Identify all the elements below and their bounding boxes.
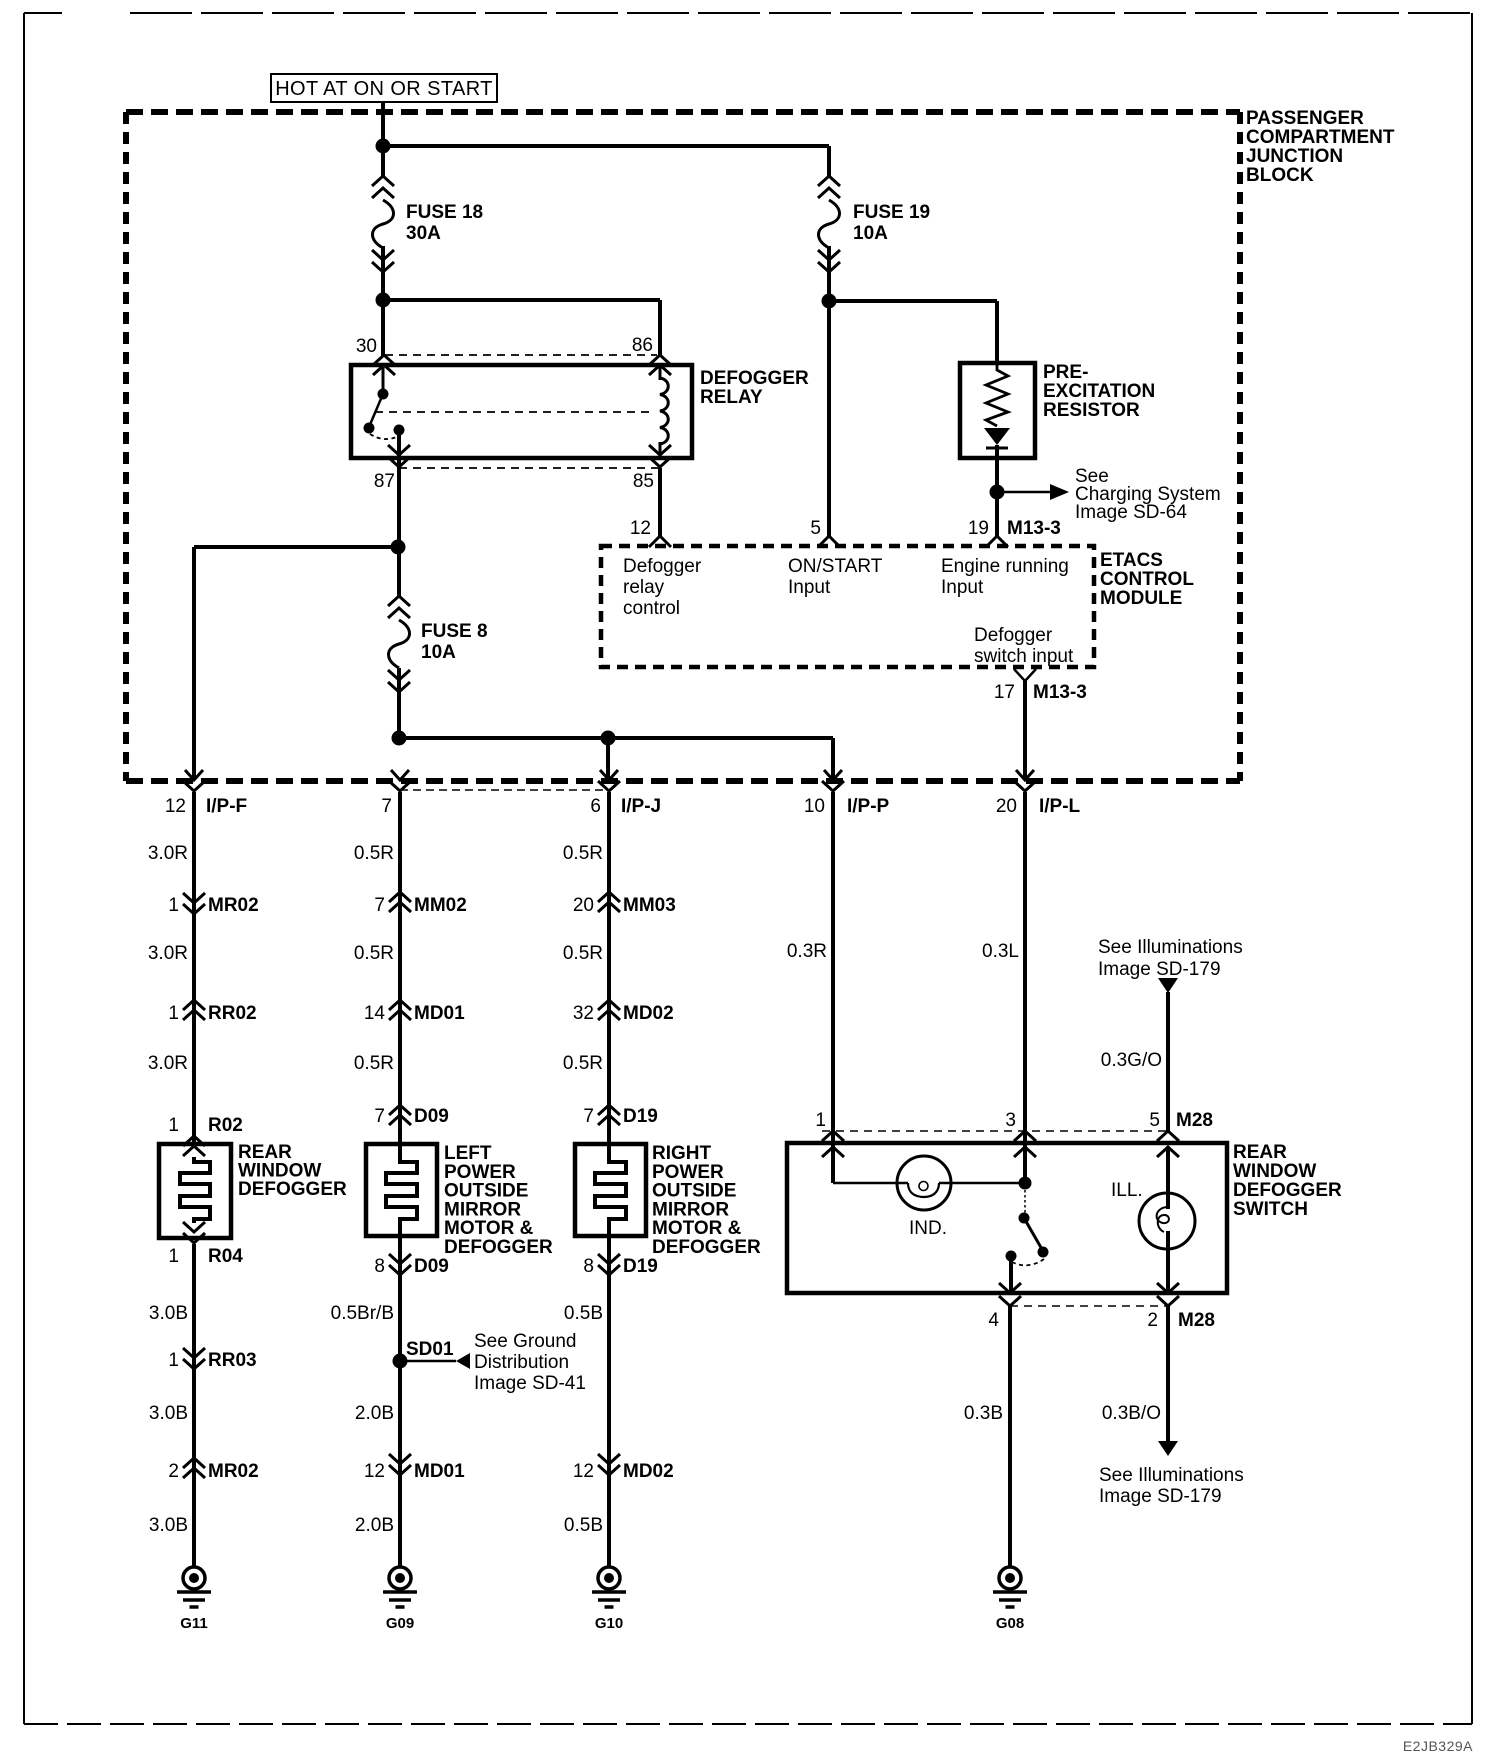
svg-text:Defogger: Defogger (623, 556, 702, 577)
svg-text:3.0B: 3.0B (149, 1403, 188, 1424)
svg-text:HOT AT ON OR START: HOT AT ON OR START (275, 78, 493, 100)
svg-text:G11: G11 (180, 1615, 208, 1632)
svg-text:MODULE: MODULE (1100, 588, 1182, 609)
svg-text:0.3G/O: 0.3G/O (1101, 1050, 1162, 1071)
svg-text:R04: R04 (208, 1246, 243, 1267)
svg-text:G09: G09 (386, 1615, 414, 1632)
svg-text:relay: relay (623, 577, 665, 598)
svg-text:20: 20 (573, 895, 594, 916)
svg-text:Image SD-41: Image SD-41 (474, 1373, 586, 1394)
svg-text:Image SD-179: Image SD-179 (1099, 1486, 1222, 1507)
svg-text:D19: D19 (623, 1106, 658, 1127)
svg-text:5: 5 (810, 518, 821, 539)
svg-text:EXCITATION: EXCITATION (1043, 381, 1155, 402)
svg-text:G10: G10 (595, 1615, 623, 1632)
svg-text:32: 32 (573, 1003, 594, 1024)
svg-text:DEFOGGER: DEFOGGER (238, 1179, 347, 1200)
svg-text:M13-3: M13-3 (1007, 518, 1061, 539)
svg-text:8: 8 (374, 1256, 385, 1277)
svg-text:SWITCH: SWITCH (1233, 1199, 1308, 1220)
svg-text:REAR: REAR (1233, 1142, 1287, 1163)
svg-text:0.5B: 0.5B (564, 1303, 603, 1324)
svg-text:0.5R: 0.5R (563, 943, 603, 964)
svg-text:MM03: MM03 (623, 895, 676, 916)
svg-text:FUSE 18: FUSE 18 (406, 202, 483, 223)
svg-text:1: 1 (168, 1350, 179, 1371)
svg-text:7: 7 (381, 796, 392, 817)
svg-text:10: 10 (804, 796, 825, 817)
svg-text:DEFOGGER: DEFOGGER (444, 1237, 553, 1258)
svg-text:12: 12 (573, 1461, 594, 1482)
svg-text:10A: 10A (853, 223, 888, 244)
svg-text:control: control (623, 598, 680, 619)
svg-text:FUSE 8: FUSE 8 (421, 621, 488, 642)
svg-text:87: 87 (374, 471, 395, 492)
svg-text:ETACS: ETACS (1100, 550, 1163, 571)
svg-text:PRE-: PRE- (1043, 362, 1088, 383)
svg-text:86: 86 (632, 335, 653, 356)
svg-text:0.5R: 0.5R (563, 1053, 603, 1074)
svg-text:I/P-L: I/P-L (1039, 796, 1081, 817)
svg-text:ILL.: ILL. (1111, 1180, 1143, 1201)
svg-text:Input: Input (941, 577, 984, 598)
svg-text:0.5R: 0.5R (563, 843, 603, 864)
svg-text:7: 7 (374, 1106, 385, 1127)
svg-text:1: 1 (168, 1246, 179, 1267)
svg-text:20: 20 (996, 796, 1017, 817)
svg-text:Engine running: Engine running (941, 556, 1069, 577)
svg-text:3.0B: 3.0B (149, 1515, 188, 1536)
svg-text:E2JB329A: E2JB329A (1403, 1738, 1473, 1754)
svg-text:12: 12 (364, 1461, 385, 1482)
svg-text:17: 17 (994, 682, 1015, 703)
svg-text:0.3B/O: 0.3B/O (1102, 1403, 1161, 1424)
svg-text:Distribution: Distribution (474, 1352, 569, 1373)
svg-text:12: 12 (165, 796, 186, 817)
svg-text:2.0B: 2.0B (355, 1403, 394, 1424)
svg-text:3.0B: 3.0B (149, 1303, 188, 1324)
svg-text:0.5R: 0.5R (354, 1053, 394, 1074)
svg-text:D09: D09 (414, 1106, 449, 1127)
svg-text:I/P-F: I/P-F (206, 796, 247, 817)
svg-text:MD02: MD02 (623, 1003, 674, 1024)
svg-text:85: 85 (633, 471, 654, 492)
svg-text:See Illuminations: See Illuminations (1099, 1465, 1244, 1486)
svg-text:3.0R: 3.0R (148, 843, 188, 864)
svg-text:4: 4 (988, 1310, 999, 1331)
svg-text:WINDOW: WINDOW (1233, 1161, 1316, 1182)
svg-text:Input: Input (788, 577, 831, 598)
svg-text:0.5Br/B: 0.5Br/B (331, 1303, 394, 1324)
svg-text:1: 1 (168, 1115, 179, 1136)
svg-text:1: 1 (168, 895, 179, 916)
svg-text:1: 1 (815, 1110, 826, 1131)
svg-text:1: 1 (168, 1003, 179, 1024)
svg-text:0.3B: 0.3B (964, 1403, 1003, 1424)
svg-text:MR02: MR02 (208, 1461, 259, 1482)
svg-text:BLOCK: BLOCK (1246, 165, 1314, 186)
svg-text:2: 2 (168, 1461, 179, 1482)
svg-text:ON/START: ON/START (788, 556, 883, 577)
svg-text:5: 5 (1149, 1110, 1160, 1131)
svg-text:M13-3: M13-3 (1033, 682, 1087, 703)
svg-text:0.3R: 0.3R (787, 941, 827, 962)
svg-text:10A: 10A (421, 642, 456, 663)
svg-text:RR03: RR03 (208, 1350, 257, 1371)
svg-text:IND.: IND. (909, 1218, 947, 1239)
svg-text:Image SD-179: Image SD-179 (1098, 959, 1221, 980)
svg-text:0.5B: 0.5B (564, 1515, 603, 1536)
svg-text:2: 2 (1147, 1310, 1158, 1331)
svg-text:7: 7 (583, 1106, 594, 1127)
svg-text:6: 6 (590, 796, 601, 817)
svg-text:DEFOGGER: DEFOGGER (1233, 1180, 1342, 1201)
svg-text:FUSE 19: FUSE 19 (853, 202, 930, 223)
svg-text:MD02: MD02 (623, 1461, 674, 1482)
svg-text:RESISTOR: RESISTOR (1043, 400, 1140, 421)
svg-text:MR02: MR02 (208, 895, 259, 916)
svg-text:DEFOGGER: DEFOGGER (652, 1237, 761, 1258)
svg-text:30: 30 (356, 336, 377, 357)
svg-text:MD01: MD01 (414, 1003, 465, 1024)
svg-text:I/P-J: I/P-J (621, 796, 661, 817)
svg-text:See Illuminations: See Illuminations (1098, 937, 1243, 958)
svg-text:8: 8 (583, 1256, 594, 1277)
svg-text:0.3L: 0.3L (982, 941, 1019, 962)
svg-text:D09: D09 (414, 1256, 449, 1277)
svg-text:14: 14 (364, 1003, 386, 1024)
svg-text:0.5R: 0.5R (354, 843, 394, 864)
svg-text:G08: G08 (996, 1615, 1024, 1632)
svg-text:3.0R: 3.0R (148, 943, 188, 964)
svg-text:See Ground: See Ground (474, 1331, 576, 1352)
svg-text:3.0R: 3.0R (148, 1053, 188, 1074)
svg-text:I/P-P: I/P-P (847, 796, 890, 817)
svg-text:MD01: MD01 (414, 1461, 465, 1482)
svg-text:19: 19 (968, 518, 989, 539)
svg-text:RELAY: RELAY (700, 387, 763, 408)
svg-text:M28: M28 (1178, 1310, 1215, 1331)
svg-text:PASSENGER: PASSENGER (1246, 108, 1364, 129)
svg-text:MM02: MM02 (414, 895, 467, 916)
svg-text:2.0B: 2.0B (355, 1515, 394, 1536)
svg-text:Image SD-64: Image SD-64 (1075, 502, 1187, 523)
svg-text:12: 12 (630, 518, 651, 539)
svg-text:SD01: SD01 (406, 1339, 454, 1360)
svg-text:M28: M28 (1176, 1110, 1213, 1131)
svg-text:Defogger: Defogger (974, 625, 1053, 646)
svg-text:D19: D19 (623, 1256, 658, 1277)
svg-text:COMPARTMENT: COMPARTMENT (1246, 127, 1395, 148)
svg-text:CONTROL: CONTROL (1100, 569, 1194, 590)
svg-text:3: 3 (1005, 1110, 1016, 1131)
svg-text:0.5R: 0.5R (354, 943, 394, 964)
svg-text:RR02: RR02 (208, 1003, 257, 1024)
svg-text:7: 7 (374, 895, 385, 916)
svg-text:DEFOGGER: DEFOGGER (700, 368, 809, 389)
svg-text:R02: R02 (208, 1115, 243, 1136)
svg-text:30A: 30A (406, 223, 441, 244)
svg-text:JUNCTION: JUNCTION (1246, 146, 1343, 167)
svg-text:switch input: switch input (974, 646, 1074, 667)
